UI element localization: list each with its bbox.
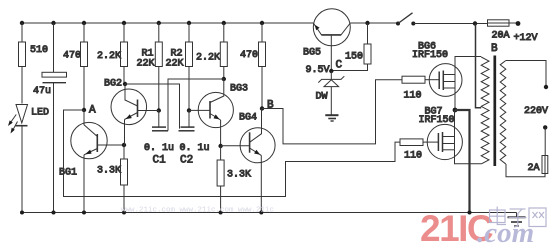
capacitor C1 — [144, 127, 174, 166]
transistor BG5 — [303, 9, 350, 71]
svg-text:.com: .com — [477, 217, 534, 249]
svg-text:470: 470 — [63, 51, 81, 62]
svg-text:22K: 22K — [166, 59, 184, 70]
node BG4 base / BG3 emitter junction — [218, 144, 222, 148]
svg-text:47u: 47u — [33, 86, 51, 97]
wire source node to ground rail — [455, 110, 470, 213]
ground zener — [325, 115, 338, 121]
wire BG6 source to node — [454, 88, 456, 110]
svg-text:9.5V: 9.5V — [306, 65, 330, 76]
resistor 470 right — [240, 23, 266, 109]
wire R2 junction down to C2 top plate — [188, 110, 190, 127]
svg-text:220V: 220V — [524, 106, 548, 117]
node 150 top junction — [365, 21, 369, 25]
wire node B to BG6 gate resistor — [262, 80, 402, 144]
svg-text:IRF150: IRF150 — [412, 50, 448, 61]
svg-text:2.2K: 2.2K — [196, 53, 220, 64]
watermark zi character — [509, 209, 527, 227]
svg-text:2.2K: 2.2K — [97, 51, 121, 62]
resistor 3.3K left — [97, 145, 128, 213]
svg-text:150: 150 — [345, 52, 363, 63]
watermark wang character — [529, 208, 546, 227]
transistor BG1 — [59, 110, 124, 213]
ground main rail — [508, 213, 526, 227]
node output terminal bottom — [543, 125, 547, 129]
svg-text:3.3K: 3.3K — [227, 170, 251, 181]
svg-text:C2: C2 — [180, 155, 193, 167]
svg-text:20A: 20A — [492, 31, 510, 42]
capacitor C2 — [179, 127, 210, 166]
svg-text:B: B — [267, 100, 274, 112]
wire R1 junction down to C1 top plate — [158, 111, 160, 127]
node BG3 base junction — [187, 108, 191, 112]
node B — [260, 100, 274, 112]
node output terminal top — [524, 85, 548, 117]
svg-text:www.21ic.com www.21ic.com ww: www.21ic.com www.21ic.com www.21ic — [121, 207, 274, 215]
wire top supply rail — [22, 22, 313, 24]
wire bottom ground rail — [22, 212, 517, 214]
transistor BG4 — [221, 109, 276, 213]
svg-text:+12V: +12V — [514, 33, 538, 44]
svg-text:BG4: BG4 — [239, 113, 257, 124]
transformer B primary winding — [481, 43, 498, 164]
node BG3 collector junction — [222, 77, 226, 81]
svg-text:BG2: BG2 — [104, 79, 122, 90]
svg-text:C: C — [336, 60, 343, 72]
wire secondary top to output terminal — [506, 61, 546, 86]
mosfet BG7 IRF150 — [419, 107, 463, 160]
wire BG7 source to primary bottom — [455, 150, 482, 164]
wire BG6 drain to primary top — [455, 57, 481, 75]
node +12V terminal — [514, 21, 538, 44]
wire node A feedback to BG7 gate resistor — [64, 110, 401, 197]
wire secondary bottom — [506, 164, 545, 177]
svg-text:110: 110 — [404, 91, 422, 102]
node top rail junction dots — [20, 21, 264, 25]
svg-text:IRF150: IRF150 — [419, 115, 455, 126]
node bottom rail junction dots — [20, 211, 472, 215]
svg-text:110: 110 — [404, 151, 422, 162]
LED light arrows — [8, 115, 18, 134]
wire BG2 collector to C2 bottom plate — [125, 84, 180, 129]
resistor 150 — [332, 23, 371, 71]
svg-text:22K: 22K — [137, 59, 155, 70]
LED — [16, 105, 50, 213]
resistor R1 22K — [137, 23, 163, 111]
resistor 2.2K left — [97, 23, 128, 84]
node C — [306, 60, 343, 77]
wire center tap from +12V rail — [476, 24, 482, 108]
resistor R2 22K — [166, 23, 193, 110]
svg-text:B: B — [491, 43, 498, 55]
svg-text:0. 1u: 0. 1u — [144, 143, 174, 154]
svg-text:3.3K: 3.3K — [97, 166, 121, 177]
svg-text:510: 510 — [30, 45, 48, 56]
resistor 110 upper (BG6 gate) — [402, 76, 439, 101]
node BG6 source / BG7 drain — [453, 108, 458, 113]
watermark dian character — [490, 207, 507, 225]
transistor BG2 — [104, 79, 159, 146]
resistor 110 lower (BG7 gate) — [400, 139, 438, 162]
svg-text:LED: LED — [31, 108, 49, 119]
node BG2 collector junction — [123, 82, 127, 86]
node A — [82, 105, 96, 117]
svg-text:2A: 2A — [528, 163, 540, 174]
transformer core — [493, 56, 496, 167]
resistor 3.3K right — [217, 146, 251, 213]
switch S — [396, 13, 415, 26]
svg-text:BG5: BG5 — [303, 48, 321, 59]
node transformer center tap junction — [473, 21, 477, 25]
node BG2 base junction — [157, 108, 161, 112]
capacitor 47u — [33, 23, 67, 213]
fuse 2A — [528, 127, 548, 174]
node BG1 base / BG2 emitter junction — [122, 143, 126, 147]
zener diode DW — [316, 71, 345, 115]
mosfet BG6 IRF150 — [412, 42, 462, 97]
svg-text:C1: C1 — [153, 155, 167, 167]
watermark .com — [477, 217, 534, 249]
watermark faint url strip — [121, 207, 274, 215]
transistor BG3 — [189, 79, 248, 146]
fuse 20A — [488, 20, 517, 42]
resistor 510 — [19, 23, 49, 104]
watermark 21IC red — [420, 208, 493, 249]
svg-text:BG1: BG1 — [59, 168, 77, 179]
wire BG7 drain up to node — [454, 110, 456, 137]
svg-text:DW: DW — [316, 92, 328, 103]
wire C1 bottom plate to BG3 collector node — [168, 79, 224, 131]
resistor 2.2K right — [196, 23, 227, 79]
svg-text:470: 470 — [240, 50, 258, 61]
svg-text:BG3: BG3 — [230, 84, 248, 95]
wire switch to fuse — [413, 23, 487, 25]
transformer secondary winding — [500, 61, 506, 164]
resistor 470 left — [63, 23, 88, 110]
svg-text:0. 1u: 0. 1u — [180, 143, 210, 154]
svg-text:A: A — [89, 105, 96, 117]
wire BG5 collector to switch — [350, 22, 398, 24]
